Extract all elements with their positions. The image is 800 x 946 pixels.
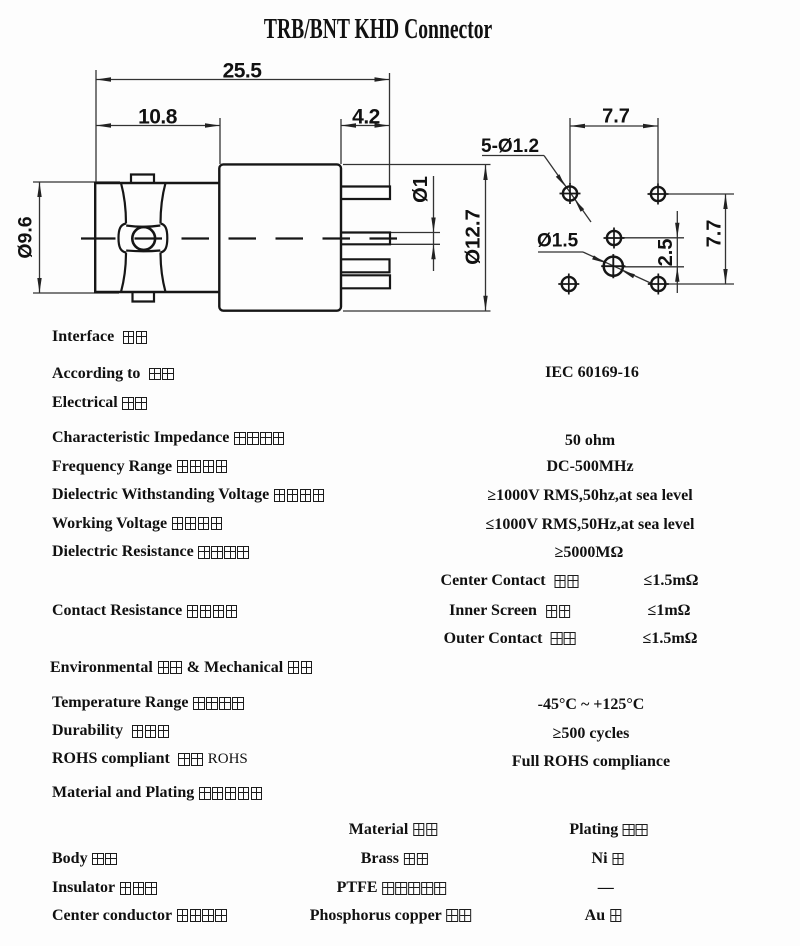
barrel front face xyxy=(94,183,96,292)
arrow 1 top xyxy=(431,218,435,233)
dim 12.7 line xyxy=(485,165,487,311)
arrow 9.6 top xyxy=(37,182,41,197)
dim 7.7 right extension bottom xyxy=(667,283,734,285)
pin 4 xyxy=(342,275,390,288)
dim 12.7 bottom extension xyxy=(343,310,491,312)
dim 9.6 bottom extension xyxy=(33,292,119,294)
hole 2 cross xyxy=(648,184,669,205)
pin 1 xyxy=(342,187,390,200)
arrow 2.5 top xyxy=(675,223,679,238)
dim 12.7 top extension xyxy=(343,164,491,166)
arrow 1 bottom xyxy=(431,244,435,259)
hole 3 circle xyxy=(607,231,621,245)
bayonet lug bottom xyxy=(133,292,155,302)
dim 9.6 top extension xyxy=(33,181,120,183)
hole 1 circle xyxy=(563,186,577,200)
dim 25.5 extension line left xyxy=(95,70,97,183)
svg-text:Ø12.7: Ø12.7 xyxy=(462,209,485,265)
dim 7.7 right line xyxy=(725,194,727,284)
barrel bottom edge xyxy=(94,291,219,293)
barrel top edge xyxy=(94,182,219,184)
hole 6 circle xyxy=(651,277,665,291)
pin 2 center contact xyxy=(342,233,390,245)
svg-text:7.7: 7.7 xyxy=(704,220,726,248)
bayonet lug top xyxy=(131,175,154,184)
coupling nut left lower edge xyxy=(121,253,126,293)
label Ø1.5 underline xyxy=(538,251,583,253)
title xyxy=(0,16,756,44)
svg-text:Ø1: Ø1 xyxy=(410,176,432,203)
dim 1 extension top xyxy=(391,232,440,234)
arrow 10.8 right xyxy=(205,123,220,127)
dim 7.7 top line xyxy=(570,125,658,127)
dim 7.7 right extension top xyxy=(668,193,734,195)
coupling nut right upper edge xyxy=(161,183,166,224)
dim 7.7 top extension left xyxy=(569,118,571,184)
centerline left view xyxy=(135,237,404,239)
hole 4 cross xyxy=(601,254,625,278)
arrow leader 1.5 lower xyxy=(622,271,635,278)
dim 4.2 extension line xyxy=(340,119,342,164)
dim 10.8 extension line xyxy=(219,118,221,164)
label Ø1.5 leader xyxy=(583,252,651,283)
bayonet pin hole xyxy=(132,227,155,250)
dim 25.5/4.2 extension line right xyxy=(389,73,391,186)
arrow 7.7 top right xyxy=(643,124,658,128)
svg-text:Ø9.6: Ø9.6 xyxy=(15,216,37,258)
arrow 4.2 right xyxy=(375,123,390,127)
arrow leader 5-1.2 upper xyxy=(556,174,565,186)
arrow 25.5 left xyxy=(96,77,111,81)
arrow 9.6 bottom xyxy=(37,278,41,293)
pin 3 xyxy=(342,259,390,272)
svg-text:7.7: 7.7 xyxy=(602,106,630,128)
dim 2.5 line xyxy=(676,211,678,293)
dim 2.5 extension bottom xyxy=(623,266,684,268)
label 5-Ø1.2 leader xyxy=(544,156,591,223)
arrow leader 1.5 upper xyxy=(592,255,605,262)
arrow 7.7 right top xyxy=(723,194,727,209)
hole 1 cross xyxy=(560,183,581,204)
coupling nut bulge bottom edge xyxy=(126,249,160,252)
arrow 4.2 left xyxy=(341,123,356,127)
dim 1 extension bottom xyxy=(391,243,440,245)
hole 2 circle xyxy=(651,187,665,201)
coupling nut bulge xyxy=(119,224,168,253)
arrow 12.7 top xyxy=(483,165,487,180)
hole 6 cross xyxy=(648,274,669,295)
centerline left view first dash xyxy=(81,237,116,239)
arrow 2.5 bottom xyxy=(675,267,679,282)
coupling nut left upper edge xyxy=(121,183,126,224)
svg-text:Ø1.5: Ø1.5 xyxy=(537,231,579,252)
dim 7.7 top extension right xyxy=(657,118,659,184)
hole 5 circle xyxy=(562,277,576,291)
hole 4 circle xyxy=(604,257,623,276)
arrow 7.7 top left xyxy=(570,124,585,128)
dim 4.2 line xyxy=(341,125,390,127)
arrow 10.8 left xyxy=(96,123,111,127)
dim 1 line xyxy=(433,176,435,271)
svg-text:10.8: 10.8 xyxy=(138,106,178,129)
svg-text:25.5: 25.5 xyxy=(223,60,263,83)
arrow 7.7 right bottom xyxy=(723,269,727,284)
hole 5 cross xyxy=(558,274,579,295)
svg-text:2.5: 2.5 xyxy=(655,239,677,267)
coupling nut bulge top edge xyxy=(126,226,160,227)
dim 2.5 extension top xyxy=(622,237,684,239)
hole 3 cross xyxy=(604,228,625,249)
coupling nut right lower edge xyxy=(161,253,166,293)
main body xyxy=(219,164,341,310)
arrow leader 5-1.2 lower xyxy=(575,200,584,212)
dim 9.6 line xyxy=(39,182,41,293)
svg-text:5-Ø1.2: 5-Ø1.2 xyxy=(481,136,539,157)
label 5-Ø1.2 underline xyxy=(482,155,544,157)
dim 25.5 line xyxy=(96,79,390,81)
arrow 25.5 right xyxy=(375,77,390,81)
dim 10.8 line xyxy=(96,125,220,127)
arrow 12.7 bottom xyxy=(483,296,487,311)
table rows xyxy=(52,329,148,345)
svg-text:4.2: 4.2 xyxy=(352,106,380,129)
